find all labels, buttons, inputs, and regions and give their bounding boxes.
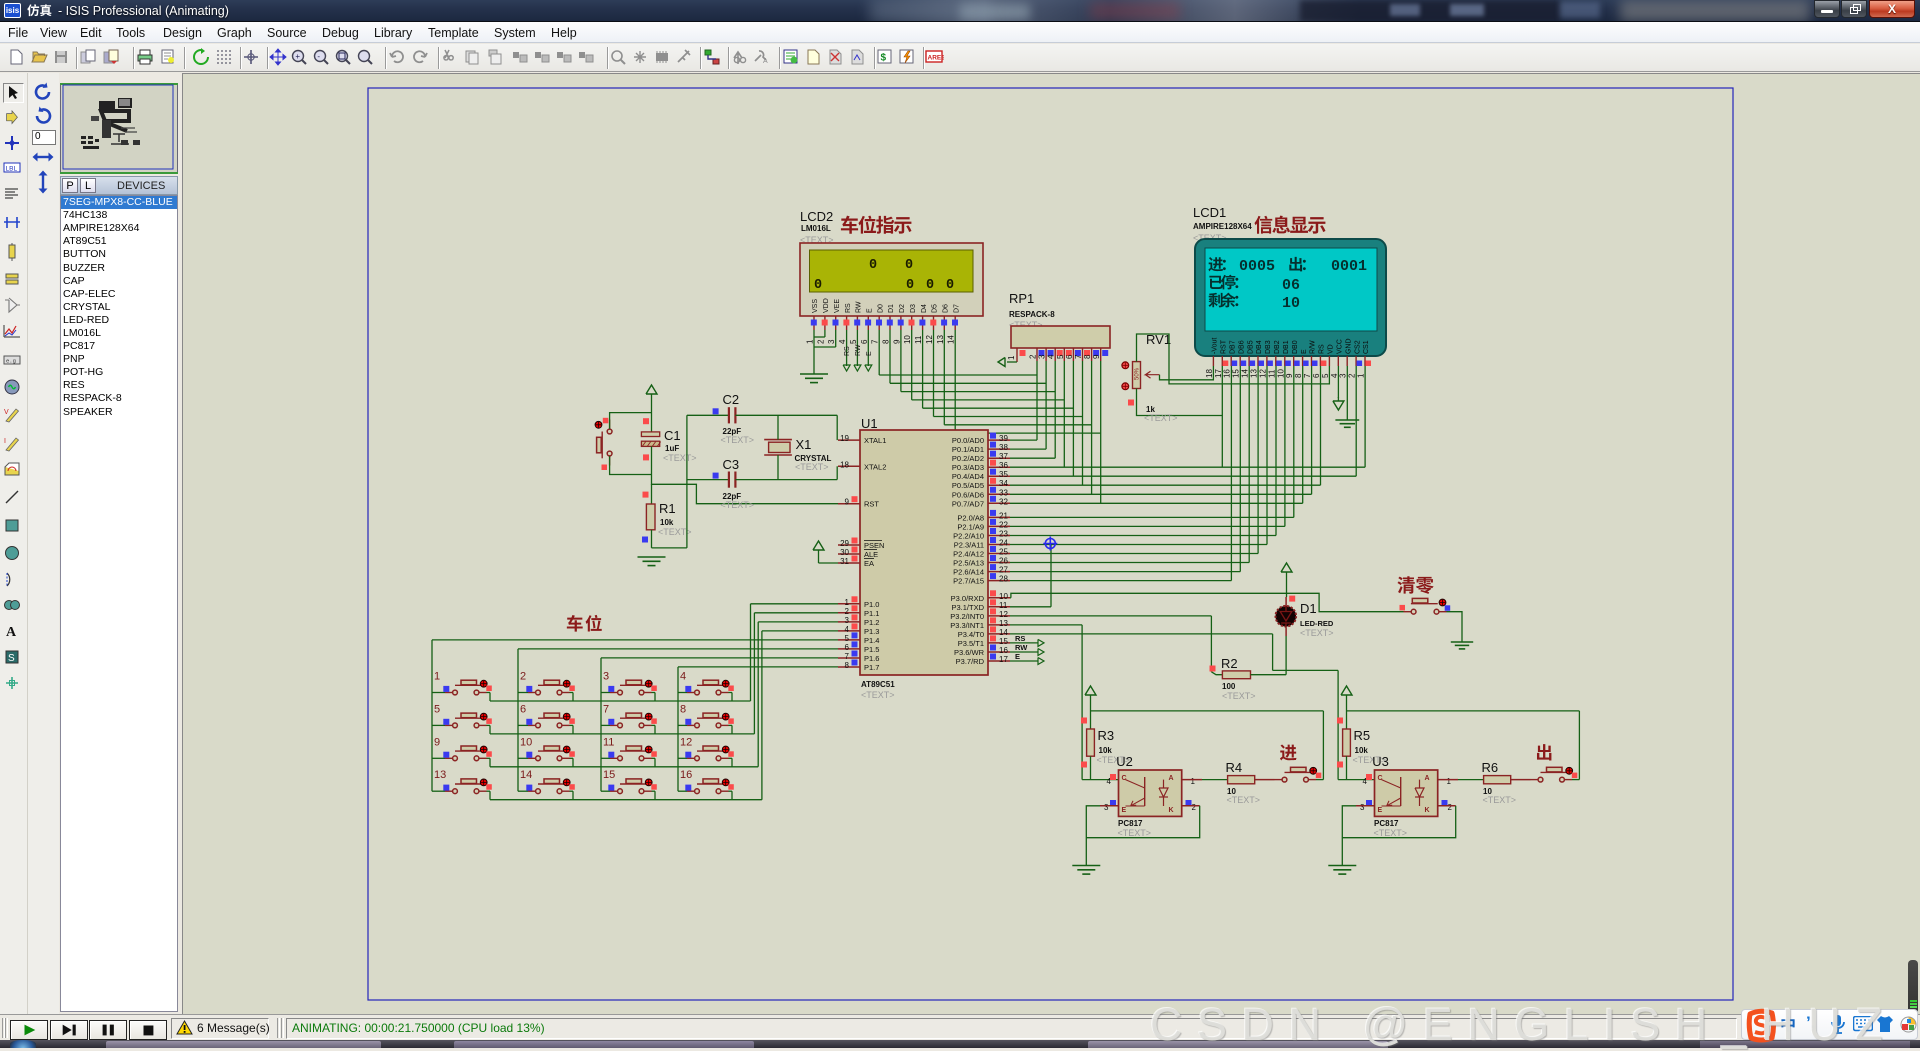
svg-text:LM016L: LM016L [801,224,831,233]
svg-text:16: 16 [999,646,1008,655]
svg-text:6: 6 [520,703,526,715]
svg-text:I: I [4,438,6,445]
svg-text:RS: RS [1015,634,1025,643]
svg-text:P3.5/T1: P3.5/T1 [958,639,984,648]
svg-text:P2.7/A15: P2.7/A15 [953,577,984,586]
svg-text:5: 5 [845,634,850,643]
svg-text:2: 2 [1029,354,1038,359]
svg-text:34: 34 [999,479,1008,488]
svg-text:3: 3 [845,616,850,625]
svg-text:4: 4 [680,671,686,683]
svg-text:30: 30 [840,548,849,557]
svg-text:E: E [1301,349,1308,354]
svg-text:U3: U3 [1372,754,1389,769]
svg-text:<TEXT>: <TEXT> [1300,628,1334,638]
svg-text:R6: R6 [1482,760,1499,775]
svg-text:VSS: VSS [812,299,819,313]
svg-text:28: 28 [999,575,1008,584]
svg-text:0: 0 [814,278,822,293]
svg-text:0: 0 [906,278,914,293]
svg-text:P2.0/A8: P2.0/A8 [957,513,984,522]
svg-text:D1: D1 [1300,601,1317,616]
svg-text:P3.2/INT0: P3.2/INT0 [950,612,984,621]
svg-text:18: 18 [1205,369,1214,378]
svg-text:AMPIRE128X64: AMPIRE128X64 [1193,222,1252,231]
svg-text:18: 18 [840,460,849,469]
svg-text:D7: D7 [953,304,960,313]
svg-text:PSEN: PSEN [864,541,884,550]
svg-text:S: S [8,653,15,664]
svg-text:P2.5/A13: P2.5/A13 [953,559,984,568]
svg-text:8: 8 [882,339,891,344]
svg-text:P1.6: P1.6 [864,654,879,663]
svg-text:10: 10 [999,592,1008,601]
svg-text:VCC: VCC [1337,339,1344,354]
svg-text:6: 6 [1312,373,1321,378]
svg-text:R2: R2 [1221,656,1238,671]
svg-text:P3.3/INT1: P3.3/INT1 [950,621,984,630]
svg-text:<TEXT>: <TEXT> [721,435,755,445]
svg-text:P1.0: P1.0 [864,600,879,609]
svg-text:P3.1/TXD: P3.1/TXD [951,603,984,612]
svg-text:ARES: ARES [928,55,945,62]
svg-text:P3.0/RXD: P3.0/RXD [951,594,985,603]
svg-text:14: 14 [999,628,1008,637]
svg-text:1: 1 [1191,777,1196,786]
svg-text:D1: D1 [888,304,895,313]
svg-text:3: 3 [1104,803,1109,812]
svg-text:26: 26 [999,557,1008,566]
svg-text:<TEXT>: <TEXT> [1144,413,1178,423]
svg-text:2: 2 [845,607,850,616]
svg-text:RST: RST [1221,339,1228,354]
svg-text:P0.7/AD7: P0.7/AD7 [952,499,984,508]
svg-text:R4: R4 [1226,760,1243,775]
svg-text:3: 3 [603,671,609,683]
svg-text:<TEXT>: <TEXT> [721,500,755,510]
svg-text:<TEXT>: <TEXT> [1222,691,1256,701]
svg-text:4: 4 [845,625,850,634]
svg-text:-Vout: -Vout [1212,338,1219,354]
svg-text:+: + [295,52,300,61]
svg-text:7: 7 [845,652,850,661]
svg-text:37: 37 [999,452,1008,461]
svg-text:RW: RW [1015,643,1028,652]
svg-text:P3.7/RD: P3.7/RD [956,657,985,666]
svg-text:4: 4 [1330,373,1339,378]
svg-text:9: 9 [1092,354,1101,359]
svg-text:PC817: PC817 [1118,819,1143,828]
svg-text:21: 21 [999,511,1008,520]
svg-text:P0.6/AD6: P0.6/AD6 [952,490,984,499]
svg-text:CS1: CS1 [1363,340,1370,354]
svg-text:P2.4/A12: P2.4/A12 [953,550,984,559]
svg-text:1: 1 [845,598,850,607]
svg-text:E: E [866,351,873,356]
svg-text:8: 8 [1294,373,1303,378]
svg-text:DB5: DB5 [1247,340,1254,354]
svg-text:5: 5 [1056,354,1065,359]
svg-text:P3.6/WR: P3.6/WR [954,648,985,657]
svg-text:0: 0 [905,258,913,273]
svg-text:12: 12 [999,610,1008,619]
svg-text:RS: RS [845,303,852,313]
svg-text:8: 8 [680,703,686,715]
svg-text:1: 1 [1007,355,1016,360]
svg-text:17: 17 [1214,369,1223,378]
svg-text:10: 10 [1282,295,1300,312]
svg-text:7: 7 [1074,354,1083,359]
svg-text:9: 9 [1285,373,1294,378]
svg-text:1: 1 [1447,777,1452,786]
svg-text:31: 31 [840,557,849,566]
svg-text:C: C [1378,775,1383,782]
svg-text:27: 27 [999,566,1008,575]
svg-text:11: 11 [914,335,923,344]
svg-text:XTAL2: XTAL2 [864,462,886,471]
svg-text:15: 15 [1232,369,1241,378]
svg-text:<TEXT>: <TEXT> [663,453,697,463]
svg-text:R5: R5 [1354,728,1371,743]
svg-text:15: 15 [603,769,615,781]
svg-text:0: 0 [869,258,877,273]
svg-text:<TEXT>: <TEXT> [795,462,829,472]
svg-text:3: 3 [1339,373,1348,378]
svg-text:R1: R1 [659,501,676,516]
svg-text:A: A [1424,775,1429,782]
svg-text:38: 38 [999,443,1008,452]
svg-text:5: 5 [1321,373,1330,378]
svg-text:AT89C51: AT89C51 [861,680,895,689]
svg-text:0001: 0001 [1331,258,1367,275]
svg-text:1: 1 [806,339,815,344]
svg-text:ALE: ALE [864,550,878,559]
svg-text:12: 12 [925,335,934,344]
svg-text:7: 7 [871,339,880,344]
svg-text:17: 17 [999,655,1008,664]
svg-text:06: 06 [1282,277,1300,294]
svg-text:DB2: DB2 [1274,340,1281,354]
svg-text:2: 2 [520,671,526,683]
svg-text:24: 24 [999,539,1008,548]
svg-text:23: 23 [999,530,1008,539]
svg-text:<TEXT>: <TEXT> [861,690,895,700]
svg-text:DB0: DB0 [1292,340,1299,354]
svg-text:K: K [1168,807,1173,814]
svg-text:9: 9 [434,736,440,748]
svg-text:10k: 10k [660,518,674,527]
svg-text:11: 11 [603,736,614,748]
svg-text:12: 12 [1258,369,1267,378]
svg-text:VD: VD [1328,344,1335,354]
svg-text:RW: RW [856,301,863,313]
svg-text:P1.5: P1.5 [864,645,879,654]
svg-text:0: 0 [946,278,954,293]
svg-text:DB7: DB7 [1229,340,1236,354]
svg-text:P2.2/A10: P2.2/A10 [953,532,984,541]
svg-text:A: A [763,58,768,65]
svg-text:VDD: VDD [823,298,830,313]
svg-text:R3: R3 [1098,728,1115,743]
svg-text:P1.1: P1.1 [864,609,879,618]
svg-text:4: 4 [1047,354,1056,359]
svg-text:DB6: DB6 [1238,340,1245,354]
svg-text:P0.3/AD3: P0.3/AD3 [952,463,984,472]
svg-text:RS: RS [1319,344,1326,354]
svg-text:2: 2 [1448,803,1453,812]
svg-text:PC817: PC817 [1374,819,1399,828]
svg-text:<TEXT>: <TEXT> [1227,795,1261,805]
svg-text:11: 11 [1267,369,1276,378]
svg-text:7: 7 [1303,373,1312,378]
svg-text:C1: C1 [664,428,681,443]
svg-text:P1.3: P1.3 [864,627,879,636]
svg-text:11: 11 [999,601,1008,610]
svg-text:D2: D2 [899,304,906,313]
svg-text:13: 13 [434,769,446,781]
svg-text:14: 14 [947,335,956,344]
svg-text:10: 10 [520,736,532,748]
svg-text:22: 22 [999,520,1008,529]
svg-text:E: E [1378,807,1383,814]
svg-text:K: K [1424,807,1429,814]
svg-text:DB1: DB1 [1283,340,1290,354]
svg-text:P3.4/T0: P3.4/T0 [958,630,984,639]
svg-text:2: 2 [816,339,825,344]
svg-text:D6: D6 [943,304,950,313]
svg-text:P0.0/AD0: P0.0/AD0 [952,436,984,445]
svg-text:$: $ [881,53,887,64]
svg-text:R/W: R/W [1310,340,1317,354]
svg-text:LBL: LBL [6,166,18,173]
svg-text:D0: D0 [877,304,884,313]
svg-text:C: C [1122,775,1127,782]
svg-text:10: 10 [1276,369,1285,378]
svg-text:6: 6 [1065,354,1074,359]
svg-text:32: 32 [999,497,1008,506]
svg-text:E: E [1015,652,1020,661]
svg-text:15: 15 [999,637,1008,646]
svg-text:-: - [317,52,320,61]
svg-text:E: E [1122,807,1127,814]
svg-text:6: 6 [860,339,869,344]
svg-text:100: 100 [1222,682,1236,691]
svg-text:CS2: CS2 [1354,340,1361,354]
svg-text:5: 5 [849,339,858,344]
svg-text:8: 8 [845,661,850,670]
svg-text:U2: U2 [1116,754,1133,769]
svg-text:P2.3/A11: P2.3/A11 [954,541,984,550]
svg-text:0: 0 [926,278,934,293]
svg-text:LCD1: LCD1 [1193,205,1226,220]
svg-text:16: 16 [680,769,692,781]
svg-text:X1: X1 [796,437,812,452]
svg-text:EA: EA [864,559,874,568]
svg-text:C2: C2 [723,392,740,407]
svg-text:P0.1/AD1: P0.1/AD1 [952,445,984,454]
svg-text:P0.2/AD2: P0.2/AD2 [952,454,984,463]
svg-text:14: 14 [520,769,532,781]
svg-text:P1.4: P1.4 [864,636,879,645]
svg-text:1: 1 [434,671,440,683]
svg-text:2: 2 [1192,803,1197,812]
svg-text:14: 14 [1241,369,1250,378]
svg-text:3: 3 [1360,803,1365,812]
svg-text:A: A [1168,775,1173,782]
svg-text:1: 1 [1357,373,1366,378]
svg-text:DB3: DB3 [1265,340,1272,354]
svg-text:12: 12 [680,736,692,748]
svg-text:29: 29 [840,539,849,548]
svg-text:V: V [4,409,9,416]
svg-text:P2.6/A14: P2.6/A14 [953,568,984,577]
svg-text:e.g: e.g [6,358,16,365]
svg-text:7: 7 [603,703,609,715]
svg-text:19: 19 [840,434,849,443]
svg-text:P1.7: P1.7 [864,663,879,672]
svg-text:9: 9 [845,498,850,507]
svg-text:13: 13 [1250,369,1259,378]
svg-text:3: 3 [827,339,836,344]
svg-text:D5: D5 [932,304,939,313]
svg-text:RST: RST [864,500,879,509]
svg-text:DB4: DB4 [1256,340,1263,354]
svg-text:10k: 10k [1355,746,1369,755]
svg-text:<TEXT>: <TEXT> [1483,795,1517,805]
svg-text:P0.5/AD5: P0.5/AD5 [952,481,984,490]
svg-text:P1.2: P1.2 [864,618,879,627]
svg-text:<TEXT>: <TEXT> [1374,828,1408,838]
svg-text:8: 8 [1083,354,1092,359]
svg-text:25: 25 [999,548,1008,557]
svg-text:39: 39 [999,434,1008,443]
svg-text:1uF: 1uF [665,444,679,453]
svg-text:36: 36 [999,461,1008,470]
svg-text:<TEXT>: <TEXT> [1118,828,1152,838]
svg-text:U1: U1 [861,416,878,431]
svg-text:RW: RW [855,344,862,356]
svg-text:13: 13 [999,619,1008,628]
svg-text:P0.4/AD4: P0.4/AD4 [952,472,984,481]
svg-text:RS: RS [844,346,851,356]
svg-text:RP1: RP1 [1009,291,1034,306]
svg-text:C3: C3 [723,457,740,472]
svg-text:10: 10 [903,335,912,344]
svg-text:13: 13 [936,335,945,344]
svg-text:A: A [6,625,17,640]
svg-text:2: 2 [1348,373,1357,378]
svg-text:P2.1/A9: P2.1/A9 [957,522,984,531]
svg-text:LCD2: LCD2 [800,209,833,224]
svg-text:50%: 50% [1135,367,1141,380]
svg-text:0005: 0005 [1239,258,1275,275]
svg-text:9: 9 [892,339,901,344]
svg-text:XTAL1: XTAL1 [864,436,886,445]
svg-text:LED-RED: LED-RED [1300,619,1334,628]
svg-text:VEE: VEE [834,299,841,313]
svg-text:10k: 10k [1099,746,1113,755]
svg-text:4: 4 [838,339,847,344]
svg-text:RESPACK-8: RESPACK-8 [1009,310,1055,319]
svg-text:3: 3 [1038,354,1047,359]
svg-text:D3: D3 [910,304,917,313]
svg-text:GND: GND [1345,338,1352,354]
svg-text:E: E [867,308,874,313]
svg-text:35: 35 [999,470,1008,479]
svg-text:D4: D4 [921,304,928,313]
svg-text:5: 5 [434,703,440,715]
svg-text:33: 33 [999,488,1008,497]
svg-text:6: 6 [845,643,850,652]
svg-text:16: 16 [1223,369,1232,378]
